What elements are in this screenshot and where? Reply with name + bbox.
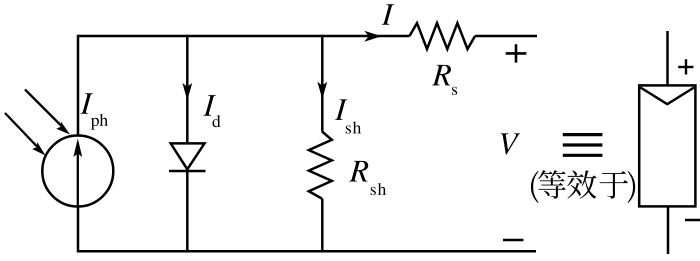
- PV cell plus: [678, 59, 693, 74]
- label Iph: [80, 93, 107, 129]
- wire diode branch lower: [186, 171, 189, 253]
- label V: [501, 133, 520, 154]
- light arrow 2: [5, 113, 46, 156]
- wire left vertical lower: [77, 206, 80, 253]
- label Id: [203, 95, 220, 127]
- PV cell bottom wire: [667, 206, 670, 254]
- wire left vertical upper: [77, 35, 80, 137]
- wire bottom bus: [78, 250, 536, 253]
- current source arrow: [73, 139, 82, 206]
- PV cell chevron: [641, 88, 695, 105]
- light arrow 1: [25, 90, 70, 135]
- terminal plus: [506, 44, 527, 62]
- label I: [382, 4, 394, 25]
- label Rsh: [349, 161, 386, 195]
- PV cell body: [639, 85, 695, 206]
- equivalence symbol: [563, 135, 603, 156]
- terminal minus: [503, 239, 523, 242]
- wire top bus left: [78, 35, 410, 38]
- current source Iph circle: [42, 136, 113, 207]
- wire shunt branch lower: [321, 199, 324, 253]
- current arrow Id: [182, 83, 192, 101]
- PV cell top wire: [666, 31, 669, 87]
- diode D: [169, 143, 206, 171]
- label equivalent-to text (dengxiaoyu): [531, 170, 635, 203]
- resistor Rsh: [309, 132, 332, 199]
- current arrow I on top bus: [364, 31, 381, 42]
- resistor Rs: [410, 23, 476, 49]
- wire shunt branch upper: [321, 35, 324, 132]
- label Rs: [432, 65, 457, 95]
- wire diode branch upper: [186, 35, 189, 144]
- label Ish: [335, 99, 361, 133]
- PV cell minus: [685, 219, 700, 222]
- current arrow Ish: [317, 82, 327, 100]
- wire top bus right: [475, 35, 537, 38]
